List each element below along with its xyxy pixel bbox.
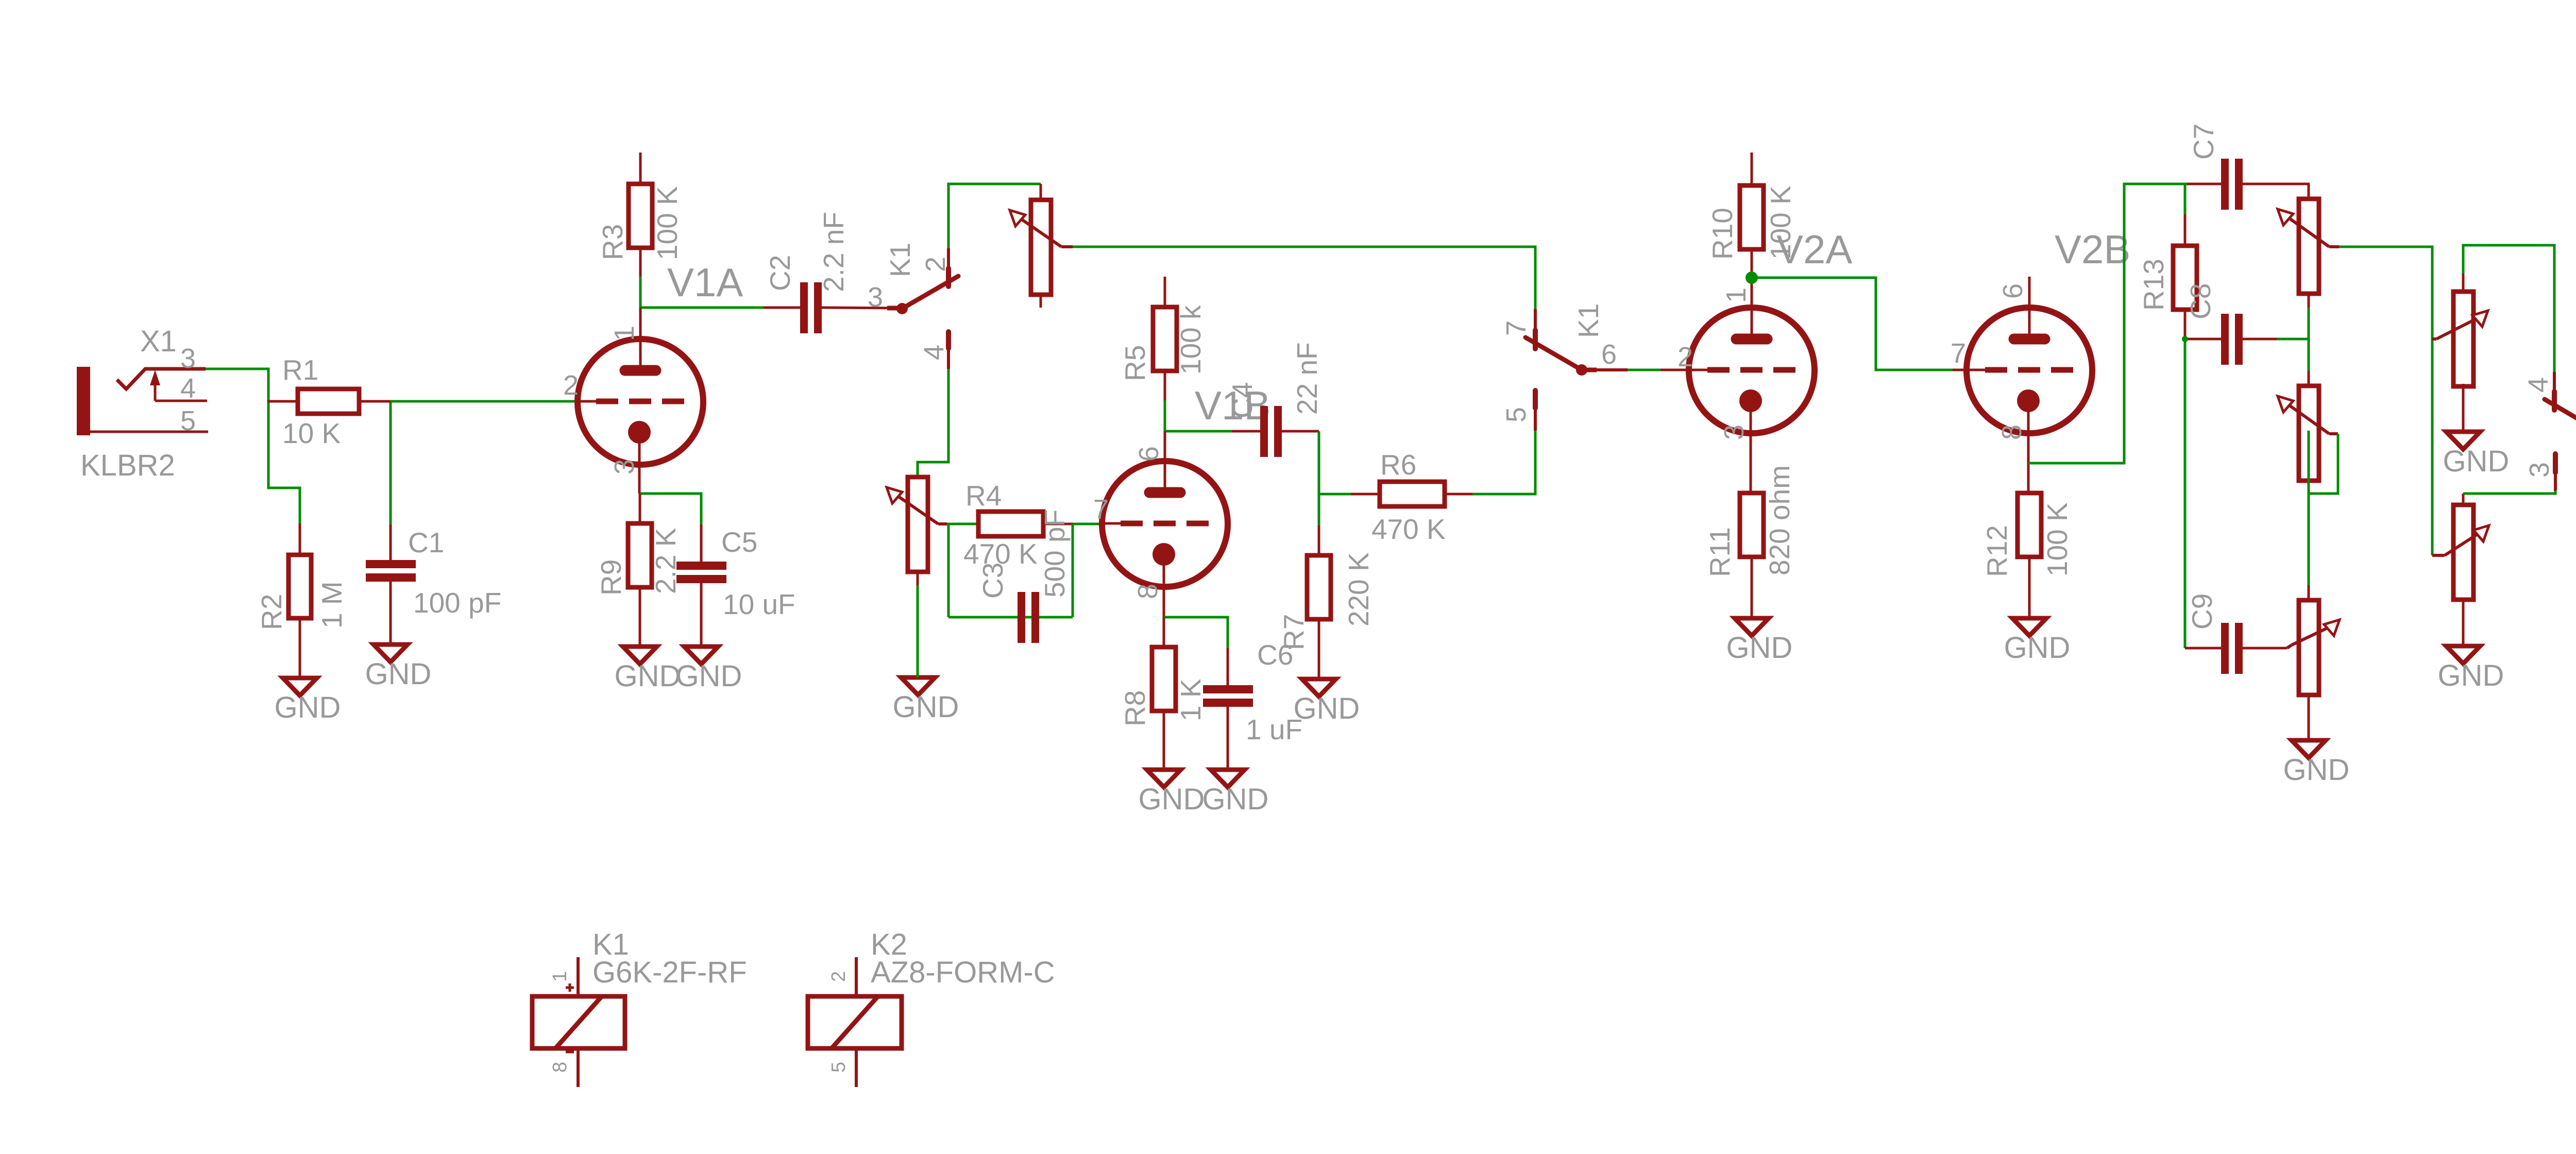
wire C1 riser (389, 401, 392, 524)
value G6K-2F-RF (592, 956, 747, 989)
wire V1B cathode to C6 (1164, 617, 1228, 648)
label R8 (1119, 690, 1151, 726)
svg-text:C6: C6 (1257, 639, 1293, 671)
svg-text:C8: C8 (2184, 283, 2216, 319)
wire R4 out to V1B grid (1073, 523, 1103, 525)
svg-text:100 K: 100 K (2041, 502, 2073, 576)
svg-text:2.2 nF: 2.2 nF (818, 212, 850, 292)
ground GND (P6) (2438, 646, 2504, 692)
pin 7 label (V1B) (1093, 494, 1109, 525)
label C8 (2184, 283, 2216, 319)
resistor R12 (2018, 493, 2041, 618)
label C3 (977, 563, 1009, 599)
svg-text:3: 3 (2524, 462, 2555, 478)
wire R1 right to V1A grid (391, 400, 578, 403)
ground GND (C6) (1202, 770, 1269, 816)
svg-text:GND: GND (275, 691, 341, 724)
pin 1 label (V1A) (609, 326, 640, 341)
pin 4 label (K2) (2523, 377, 2554, 393)
pin 3 label (X1) (180, 343, 196, 374)
label V1A (667, 260, 743, 305)
label C6 (1257, 639, 1293, 671)
svg-text:GND: GND (615, 659, 681, 693)
resistor R9 (628, 494, 652, 647)
value 220 K (1343, 552, 1375, 626)
relay contact K1 (3/2/4) (887, 248, 958, 369)
value 1 M (316, 581, 348, 629)
svg-text:V1A: V1A (667, 260, 743, 305)
resistor R7 (1307, 525, 1331, 679)
svg-text:2.2 K: 2.2 K (650, 528, 682, 594)
pin 5 label (K2 coil) (828, 1062, 850, 1073)
wire V1A cathode to R9/C5 (640, 494, 701, 524)
svg-text:7: 7 (1501, 320, 1532, 336)
trimmer pot P2 (887, 477, 947, 585)
svg-text:1: 1 (1721, 287, 1752, 303)
pin 3 label (V2A) (1719, 425, 1750, 440)
svg-text:R2: R2 (256, 594, 287, 630)
svg-text:10 uF: 10 uF (723, 588, 795, 620)
svg-text:2: 2 (920, 257, 951, 272)
svg-text:100 K: 100 K (651, 186, 683, 260)
wire P2 wiper to R4 (947, 523, 978, 525)
svg-text:100 k: 100 k (1175, 305, 1207, 375)
resistor R6 (1351, 482, 1472, 506)
svg-text:500 pF: 500 pF (1039, 510, 1071, 598)
label X1 (140, 325, 177, 358)
svg-text:KLBR2: KLBR2 (80, 449, 175, 482)
svg-text:C7: C7 (2188, 124, 2219, 160)
pin 5 label (X1) (180, 405, 196, 436)
value 500 pF (1039, 510, 1071, 598)
label V2A (1776, 227, 1852, 272)
pin 3 label (K2) (2524, 462, 2555, 478)
value 22 nF (1291, 342, 1323, 415)
ground GND (R7) (1294, 679, 1360, 725)
trimmer pot P4 (2278, 371, 2338, 481)
svg-text:GND: GND (893, 690, 959, 724)
label C2 (764, 255, 796, 291)
wire R13/C8 down to C9 (2184, 339, 2187, 648)
label R3 (597, 224, 629, 260)
capacitor C9 (2185, 623, 2287, 674)
resistor R13 (2173, 184, 2197, 339)
resistor R2 (289, 523, 311, 678)
svg-text:R3: R3 (597, 224, 629, 260)
wire K1.4 to R4 pot (918, 369, 948, 477)
pin 2 label (K1) (920, 257, 951, 272)
svg-text:10 K: 10 K (282, 417, 341, 449)
label C9 (2186, 593, 2218, 630)
svg-text:3: 3 (609, 459, 640, 474)
tube V2A (1660, 278, 1815, 493)
pin 4 label (K1) (919, 345, 950, 360)
pin 8 label (K1 coil) (549, 1062, 571, 1073)
svg-text:GND: GND (2004, 631, 2071, 665)
svg-text:R11: R11 (1704, 527, 1736, 577)
capacitor C7 (2187, 159, 2310, 210)
svg-text:4: 4 (2523, 377, 2554, 393)
value 1 K (1175, 678, 1207, 721)
resistor R4 (978, 512, 1073, 536)
svg-text:1 uF: 1 uF (1246, 714, 1302, 745)
svg-text:5: 5 (180, 405, 196, 436)
wire R3 to V1A anode node (640, 277, 764, 308)
value 100 K (R3) (651, 186, 683, 260)
value 2.2 nF (818, 212, 850, 292)
pin 3 label (V1A) (609, 459, 640, 474)
value 10 uF (723, 588, 795, 620)
svg-text:C9: C9 (2186, 593, 2218, 630)
svg-text:3: 3 (1719, 425, 1750, 440)
wire X1.3 to R1/R2 node (206, 369, 300, 523)
svg-text:R6: R6 (1380, 449, 1416, 481)
pin 2 label (K2 coil) (828, 971, 850, 982)
value 10 K (282, 417, 341, 449)
resistor R10 (1740, 152, 1764, 272)
ground GND (P5) (2443, 432, 2510, 478)
svg-text:GND: GND (365, 657, 432, 691)
svg-text:X1: X1 (140, 325, 177, 358)
relay contact K1 (7/6/5) (1526, 309, 1628, 431)
pin 5 label (K1) (1501, 407, 1532, 422)
capacitor C1 (366, 524, 416, 644)
svg-text:R12: R12 (1981, 525, 2013, 577)
label K2 (coil) (871, 928, 907, 961)
ground GND (C5) (676, 647, 742, 693)
svg-text:C5: C5 (721, 526, 757, 558)
svg-text:C3: C3 (977, 563, 1009, 599)
pin 6 label (V2B) (1997, 283, 2028, 299)
svg-text:4: 4 (180, 373, 196, 404)
wire C4 node to R7 (1318, 494, 1320, 525)
ground GND (R2) (275, 678, 341, 724)
label C4 (1226, 382, 1258, 418)
label C7 (2188, 124, 2219, 160)
svg-text:K1: K1 (884, 243, 916, 277)
trimmer pot P3 (2278, 184, 2339, 308)
pin 6 label (K1) (1601, 339, 1617, 370)
svg-text:6: 6 (1133, 446, 1164, 462)
value 470 K (R6) (1371, 513, 1446, 545)
label R1 (282, 354, 318, 386)
capacitor C2 (764, 282, 897, 333)
svg-text:C2: C2 (764, 255, 796, 291)
svg-text:1 K: 1 K (1175, 678, 1207, 721)
wire R6 to K1.5 (1472, 431, 1535, 494)
wire R5 to V1B anode node (1165, 400, 1232, 431)
value 820 ohm (1764, 465, 1795, 575)
wire P4 wiper loop (2310, 434, 2338, 494)
trimmer pot P6 (2432, 494, 2489, 646)
wire C3 up to grid node (1072, 524, 1074, 617)
value AZ8-FORM-C (871, 956, 1055, 989)
trimmer pot P5 (2432, 274, 2488, 432)
trimmer pot P7 (2287, 585, 2340, 740)
pin 6 label (V1B) (1133, 446, 1164, 462)
value 100 K (R12) (2041, 502, 2073, 576)
svg-text:220 K: 220 K (1343, 552, 1375, 626)
label C5 (721, 526, 757, 558)
svg-text:470 K: 470 K (1371, 513, 1446, 545)
svg-text:100 pF: 100 pF (413, 587, 501, 619)
wire K2.3 to P6 (2463, 490, 2555, 494)
pin 8 label (V1B) (1132, 584, 1163, 599)
svg-text:R4: R4 (965, 480, 1002, 512)
ground GND (P7) (2283, 740, 2350, 787)
svg-text:GND: GND (1726, 631, 1793, 665)
relay coil K2 (808, 957, 902, 1087)
svg-text:8: 8 (1996, 425, 2027, 440)
label K1 (contact right) (1572, 303, 1604, 338)
ground GND (P2) (893, 585, 959, 724)
value 2.2 K (650, 528, 682, 594)
value 100 K (R10) (1765, 185, 1797, 260)
svg-text:22 nF: 22 nF (1291, 342, 1323, 415)
label V1B (1195, 383, 1270, 428)
ground GND (R9) (615, 647, 681, 693)
svg-text:GND: GND (2443, 445, 2510, 478)
svg-text:3: 3 (868, 282, 883, 313)
svg-text:G6K-2F-RF: G6K-2F-RF (592, 956, 747, 989)
svg-text:GND: GND (676, 659, 742, 693)
svg-text:7: 7 (1093, 494, 1109, 525)
tube V1B (1102, 431, 1228, 617)
label K1 (contact left) (884, 243, 916, 277)
ground GND (R8) (1139, 770, 1205, 816)
label R9 (595, 559, 627, 596)
label K1 (coil) (592, 928, 629, 961)
pin 4 label (X1) (180, 373, 196, 404)
relay coil K1 (532, 957, 625, 1087)
resistor R11 (1740, 493, 1764, 618)
resistor R1 (267, 389, 391, 414)
capacitor C3 (948, 592, 1073, 643)
tube V2B (1953, 277, 2092, 493)
wire P3 bottom to C8/P4 (2308, 308, 2310, 371)
svg-text:R10: R10 (1706, 208, 1738, 260)
ground GND (R11) (1726, 618, 1793, 665)
label V2B (2055, 227, 2130, 272)
value KLBR2 (80, 449, 175, 482)
svg-text:2: 2 (1677, 342, 1693, 372)
wire C4 to R6/R7 node (1319, 431, 1351, 494)
ground GND (R12) (2004, 618, 2071, 665)
svg-text:GND: GND (2438, 659, 2504, 692)
svg-text:GND: GND (1294, 692, 1360, 725)
svg-text:2: 2 (828, 971, 850, 982)
svg-text:C4: C4 (1226, 382, 1258, 418)
capacitor C8 (2185, 314, 2277, 365)
svg-text:V2B: V2B (2055, 227, 2130, 272)
label R2 (256, 594, 287, 630)
svg-text:R13: R13 (2138, 259, 2170, 311)
wire K1.6 to V2A grid (1628, 369, 1660, 371)
wire P1 wiper to K1.7 (1073, 247, 1535, 309)
svg-text:C1: C1 (408, 527, 444, 558)
svg-text:7: 7 (1951, 338, 1966, 369)
svg-text:4: 4 (919, 345, 950, 360)
svg-text:GND: GND (2283, 753, 2350, 787)
wire V2B cathode to C7 net (2028, 184, 2187, 463)
label R11 (1704, 527, 1736, 577)
resistor R3 (629, 152, 652, 277)
svg-text:3: 3 (180, 343, 196, 374)
label R5 (1119, 345, 1151, 381)
label R10 (1706, 208, 1738, 260)
pin 2 label (V2A) (1677, 342, 1693, 372)
svg-text:5: 5 (1501, 407, 1532, 422)
wire P4 bottom to P7 (2308, 431, 2310, 585)
value 100 pF (413, 587, 501, 619)
wire P3 wiper to presence bus (2339, 247, 2432, 555)
value 470 K (R4) (963, 538, 1038, 570)
relay contact K2 (4/1/3) (2545, 372, 2576, 491)
svg-text:6: 6 (1997, 283, 2028, 299)
wire R10 to V2A anode (1751, 271, 1753, 278)
svg-text:8: 8 (549, 1062, 571, 1073)
value 100 k (1175, 305, 1207, 375)
svg-text:1: 1 (609, 326, 640, 341)
pin 1 label (V2A) (1721, 287, 1752, 303)
svg-text:R8: R8 (1119, 690, 1151, 726)
svg-text:K1: K1 (1572, 303, 1604, 338)
svg-text:R9: R9 (595, 559, 627, 596)
wire C3 drop (947, 524, 950, 617)
pin 3 label (K1) (868, 282, 883, 313)
pin 1 label (K1 coil) (549, 971, 571, 982)
label R13 (2138, 259, 2170, 311)
svg-text:820 ohm: 820 ohm (1764, 465, 1795, 575)
svg-text:V2A: V2A (1776, 227, 1852, 272)
capacitor C5 (676, 524, 726, 647)
pin 7 label (V2B) (1951, 338, 1966, 369)
label R7 (1278, 614, 1310, 650)
svg-text:R5: R5 (1119, 345, 1151, 381)
pin 7 label (K1) (1501, 320, 1532, 336)
svg-text:1: 1 (549, 971, 571, 982)
wire P5 top to K2.4 (2463, 245, 2554, 372)
capacitor C4 (1232, 406, 1319, 457)
svg-text:1 M: 1 M (316, 581, 348, 629)
svg-text:8: 8 (1132, 584, 1163, 599)
pin 8 label (V2B) (1996, 425, 2027, 440)
tube V1A (578, 308, 703, 494)
svg-text:GND: GND (1202, 783, 1269, 816)
svg-text:AZ8-FORM-C: AZ8-FORM-C (871, 956, 1055, 989)
connector X1 (jack KLBR2) (77, 367, 208, 435)
wire K1.2 riser to pot (948, 184, 1041, 248)
svg-text:GND: GND (1139, 783, 1205, 816)
label C1 (408, 527, 444, 558)
capacitor C6 (1203, 648, 1253, 770)
wire C8 right to P3 bottom (2277, 338, 2309, 341)
svg-text:5: 5 (828, 1062, 850, 1073)
junction R13/C8 node (2182, 336, 2188, 342)
label R6 (1380, 449, 1416, 481)
svg-text:2: 2 (563, 370, 579, 401)
label R12 (1981, 525, 2013, 577)
pin 2 label (V1A) (563, 370, 579, 401)
ground GND (C1) (365, 644, 432, 691)
resistor R5 (1153, 277, 1177, 400)
svg-text:R1: R1 (282, 354, 318, 386)
label R4 (965, 480, 1002, 512)
junction V2A anode node (1745, 271, 1758, 284)
wire V2A anode to V2B grid (1752, 278, 1953, 370)
value 1 uF (1246, 714, 1302, 745)
resistor R8 (1152, 617, 1176, 770)
svg-text:6: 6 (1601, 339, 1617, 370)
trimmer pot P1 (1010, 184, 1073, 308)
